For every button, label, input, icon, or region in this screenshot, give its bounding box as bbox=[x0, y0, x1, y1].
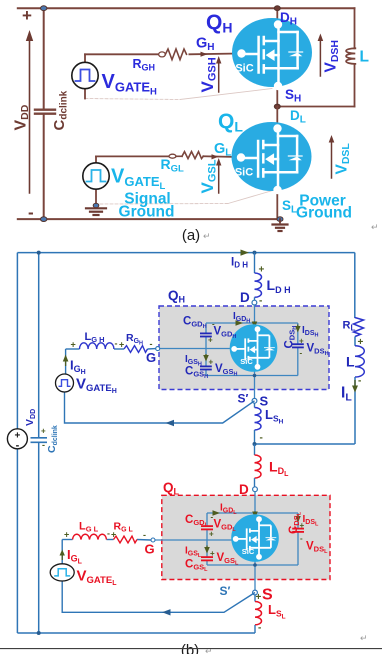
wire bottom rail b bbox=[17, 632, 255, 634]
svg-text:VGATEL: VGATEL bbox=[77, 568, 118, 588]
svg-text:S: S bbox=[262, 587, 273, 604]
drain wire QL bbox=[276, 107, 278, 130]
IGH arrow bbox=[63, 355, 86, 377]
drain junction down arrow L bbox=[252, 512, 258, 519]
svg-text:S′: S′ bbox=[238, 392, 249, 406]
svg-text:↵: ↵ bbox=[360, 633, 368, 643]
inductor L right bbox=[346, 8, 369, 106]
wire top rail bbox=[18, 7, 355, 9]
svg-text:+: + bbox=[300, 521, 305, 530]
svg-text:IGL: IGL bbox=[67, 547, 83, 566]
junction switch mid b bbox=[253, 442, 257, 446]
inductor LDH bbox=[255, 253, 291, 307]
svg-text:+: + bbox=[119, 340, 124, 350]
resistor RL bbox=[354, 318, 364, 337]
svg-text:LSH: LSH bbox=[265, 407, 284, 426]
junction bottom left b bbox=[37, 631, 41, 635]
IDSH arrow bbox=[295, 325, 301, 333]
IGDL arrow bbox=[213, 510, 221, 516]
svg-text:↵: ↵ bbox=[203, 231, 211, 241]
capacitor CDSH bbox=[292, 344, 304, 347]
drain junction down arrow bbox=[252, 322, 258, 329]
svg-text:(a): (a) bbox=[182, 227, 200, 244]
svg-text:Cdclink: Cdclink bbox=[46, 425, 59, 453]
svg-text:IGH: IGH bbox=[70, 358, 86, 377]
svg-text:-: - bbox=[42, 440, 45, 450]
resistor RGH bbox=[133, 49, 187, 73]
svg-text:+: + bbox=[210, 549, 215, 558]
svg-text:-: - bbox=[107, 529, 110, 539]
svg-text:LSL: LSL bbox=[268, 602, 286, 621]
MOSFET QH model bbox=[230, 324, 278, 372]
inductor LGL bbox=[64, 521, 116, 540]
junction DH top rail bbox=[274, 6, 280, 11]
svg-text:D: D bbox=[240, 290, 250, 305]
svg-text:-: - bbox=[115, 339, 118, 349]
kelvin wire low side bbox=[62, 581, 255, 616]
wire right rail H bbox=[297, 323, 299, 344]
svg-text:-: - bbox=[300, 534, 303, 543]
wire drain axis H bbox=[254, 305, 256, 330]
VDSL annotation arrow bbox=[329, 135, 352, 178]
gate driver VGATEH bbox=[72, 54, 157, 98]
svg-text:G: G bbox=[145, 542, 155, 557]
source wire QL to power ground bbox=[276, 187, 278, 219]
gate loop L wires bbox=[62, 539, 72, 541]
power ground symbol bbox=[273, 217, 288, 231]
svg-text:L: L bbox=[360, 49, 369, 66]
MOSFET QH bbox=[232, 18, 312, 90]
inductor L load bbox=[355, 346, 364, 377]
svg-text:RGH: RGH bbox=[126, 332, 143, 347]
VDSH annotation arrow bbox=[318, 34, 341, 77]
svg-text:-: - bbox=[150, 339, 153, 349]
svg-text:VDD: VDD bbox=[24, 409, 37, 426]
svg-text:RG L: RG L bbox=[114, 521, 134, 534]
svg-text:S′: S′ bbox=[220, 584, 231, 598]
VDD source b bbox=[7, 409, 37, 452]
svg-text:VDSH: VDSH bbox=[323, 40, 342, 73]
svg-text:GH: GH bbox=[196, 36, 215, 54]
wire bottom rail bbox=[18, 218, 280, 220]
capacitor CGDL bbox=[201, 526, 213, 529]
svg-text:LG H: LG H bbox=[85, 331, 105, 344]
svg-text:RGH: RGH bbox=[133, 57, 156, 73]
box QH model bbox=[159, 306, 329, 390]
svg-text:VGATEL: VGATEL bbox=[111, 166, 166, 193]
junction source L bbox=[253, 563, 257, 567]
IGL arrow bbox=[60, 547, 83, 566]
wire to gate L with current arrow bbox=[203, 154, 238, 159]
capacitor CGSL bbox=[201, 557, 213, 560]
inductor LDL bbox=[255, 444, 290, 487]
svg-text:-: - bbox=[260, 433, 263, 444]
svg-text:SL: SL bbox=[282, 198, 297, 216]
capacitor CGSH bbox=[200, 366, 212, 369]
svg-text:SH: SH bbox=[285, 87, 301, 105]
svg-text:-: - bbox=[16, 440, 20, 452]
svg-text:+: + bbox=[22, 6, 32, 25]
junction DH rail bbox=[253, 251, 257, 255]
wire gate H bbox=[85, 53, 159, 55]
node G high bbox=[146, 347, 160, 365]
capacitor Cdclink b bbox=[31, 253, 60, 633]
svg-text:G: G bbox=[146, 350, 156, 365]
svg-text:DL: DL bbox=[290, 108, 306, 126]
wire right rail L bbox=[297, 513, 299, 528]
faint kelvin leader low side bbox=[100, 190, 276, 205]
wire to gate H with current arrow bbox=[189, 52, 238, 57]
IGDH arrow bbox=[236, 320, 244, 326]
inductor LGH bbox=[71, 331, 125, 350]
inductor LSL bbox=[255, 592, 286, 634]
svg-text:-: - bbox=[143, 530, 146, 540]
svg-text:GL: GL bbox=[214, 141, 231, 159]
wire source axis H bbox=[254, 367, 256, 399]
IDSL arrow bbox=[295, 515, 301, 523]
wire gate rail H bbox=[205, 323, 207, 333]
node D low bbox=[239, 482, 257, 497]
junction source H bbox=[253, 374, 257, 378]
QL internals bbox=[153, 492, 298, 591]
svg-text:QH: QH bbox=[206, 11, 232, 36]
capacitor Cdclink bbox=[35, 8, 70, 219]
svg-text:VDD: VDD bbox=[13, 104, 32, 130]
resistor RGL b bbox=[114, 521, 147, 543]
node S low bbox=[253, 587, 273, 604]
svg-text:-: - bbox=[28, 203, 34, 222]
junction drain L bbox=[253, 511, 257, 515]
wire gate L bbox=[96, 155, 169, 157]
source VGATEH b bbox=[56, 374, 117, 395]
svg-text:VGSH: VGSH bbox=[198, 57, 219, 92]
svg-text:+: + bbox=[209, 530, 214, 539]
svg-text:QH: QH bbox=[168, 288, 185, 305]
svg-text:-: - bbox=[259, 296, 262, 307]
IL arrow bbox=[352, 386, 358, 393]
svg-text:+: + bbox=[209, 358, 214, 367]
source wire QH to switch node bbox=[276, 85, 278, 107]
svg-text:VGSL: VGSL bbox=[198, 159, 219, 193]
svg-text:(b): (b) bbox=[181, 642, 199, 654]
svg-text:+: + bbox=[41, 427, 46, 436]
IGSH arrow bbox=[203, 354, 209, 362]
node G low bbox=[145, 538, 156, 557]
capacitor CDSL bbox=[292, 529, 304, 532]
box QL model bbox=[162, 495, 330, 579]
node S high bbox=[252, 394, 268, 409]
junction drain H bbox=[253, 321, 257, 325]
svg-text:LDL: LDL bbox=[269, 459, 289, 479]
svg-text:L: L bbox=[346, 354, 355, 370]
resistor RGL bbox=[161, 152, 204, 175]
svg-text:LG L: LG L bbox=[79, 521, 99, 534]
svg-text:-: - bbox=[258, 623, 261, 634]
svg-text:+: + bbox=[208, 336, 213, 345]
svg-text:VGATEH: VGATEH bbox=[102, 71, 158, 98]
wire left rail b bbox=[16, 253, 18, 633]
wire gate internal H bbox=[158, 348, 235, 350]
resistor RGH b bbox=[124, 332, 153, 352]
svg-text:+: + bbox=[71, 340, 76, 350]
inductor LSH bbox=[255, 403, 284, 444]
svg-text:IL: IL bbox=[341, 385, 352, 404]
node D high bbox=[240, 290, 257, 305]
junction switch node bbox=[274, 104, 280, 109]
wire top rail b bbox=[17, 252, 354, 254]
IDH current arrow bbox=[231, 250, 249, 270]
svg-text:QL: QL bbox=[163, 480, 180, 497]
drain wire QH bbox=[276, 8, 278, 26]
MOSFET QL bbox=[232, 122, 312, 194]
wire top internal L bbox=[207, 512, 298, 514]
MOSFET QL model bbox=[231, 514, 279, 562]
QH internals bbox=[158, 305, 298, 399]
junction bottom-left bbox=[41, 217, 47, 222]
VDD annotation arrow bbox=[13, 30, 34, 193]
faint kelvin leader high side bbox=[85, 89, 272, 100]
wire bottom internal L bbox=[207, 564, 298, 566]
svg-text:Ground: Ground bbox=[119, 204, 175, 221]
svg-text:+: + bbox=[64, 530, 69, 540]
junction top left b bbox=[37, 251, 41, 255]
wire top internal H bbox=[206, 322, 298, 324]
kelvin wire high side bbox=[65, 391, 255, 426]
signal ground symbol bbox=[86, 203, 106, 215]
svg-text:-: - bbox=[358, 376, 361, 387]
svg-text:Ground: Ground bbox=[296, 205, 352, 222]
source VGATEL b bbox=[50, 564, 117, 587]
svg-text:LD H: LD H bbox=[267, 277, 291, 295]
junction top-left bbox=[41, 6, 47, 11]
svg-text:↵: ↵ bbox=[371, 222, 379, 232]
wire bottom internal H bbox=[206, 375, 298, 377]
IGSL arrow bbox=[204, 546, 210, 554]
load branch right bbox=[255, 253, 365, 444]
bottom separator line bbox=[0, 648, 382, 650]
svg-text:-: - bbox=[300, 349, 303, 358]
svg-text:VDSL: VDSL bbox=[334, 143, 353, 175]
gate driver VGATEL bbox=[83, 156, 166, 204]
VGSH annotation arrow bbox=[198, 56, 221, 93]
svg-text:DH: DH bbox=[280, 10, 297, 28]
gate loop H wires bbox=[66, 348, 80, 350]
wire source axis L bbox=[254, 557, 256, 590]
capacitor CGDH bbox=[200, 333, 212, 336]
svg-text:RL: RL bbox=[343, 320, 356, 333]
svg-text:↵: ↵ bbox=[205, 646, 213, 654]
svg-text:QL: QL bbox=[218, 110, 243, 135]
svg-text:ID H: ID H bbox=[231, 257, 248, 270]
VGSL annotation arrow bbox=[198, 158, 221, 194]
wire drain axis L bbox=[254, 492, 256, 520]
svg-text:+: + bbox=[299, 337, 304, 346]
wire gate internal L bbox=[153, 539, 235, 541]
wire gate rail L bbox=[206, 513, 208, 526]
svg-text:VGATEH: VGATEH bbox=[76, 376, 117, 396]
switch node wire to right bbox=[277, 106, 354, 108]
